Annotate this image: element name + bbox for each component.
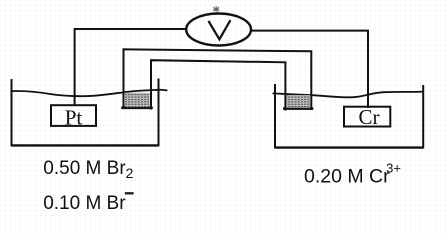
svg-text:0.10 M Br: 0.10 M Br	[43, 193, 126, 214]
svg-text:0.50 M Br2: 0.50 M Br2	[43, 158, 133, 181]
svg-text:Pt: Pt	[65, 106, 83, 130]
svg-text:Cr: Cr	[359, 105, 380, 129]
svg-text:0.20 M Cr3+: 0.20 M Cr3+	[304, 160, 401, 187]
